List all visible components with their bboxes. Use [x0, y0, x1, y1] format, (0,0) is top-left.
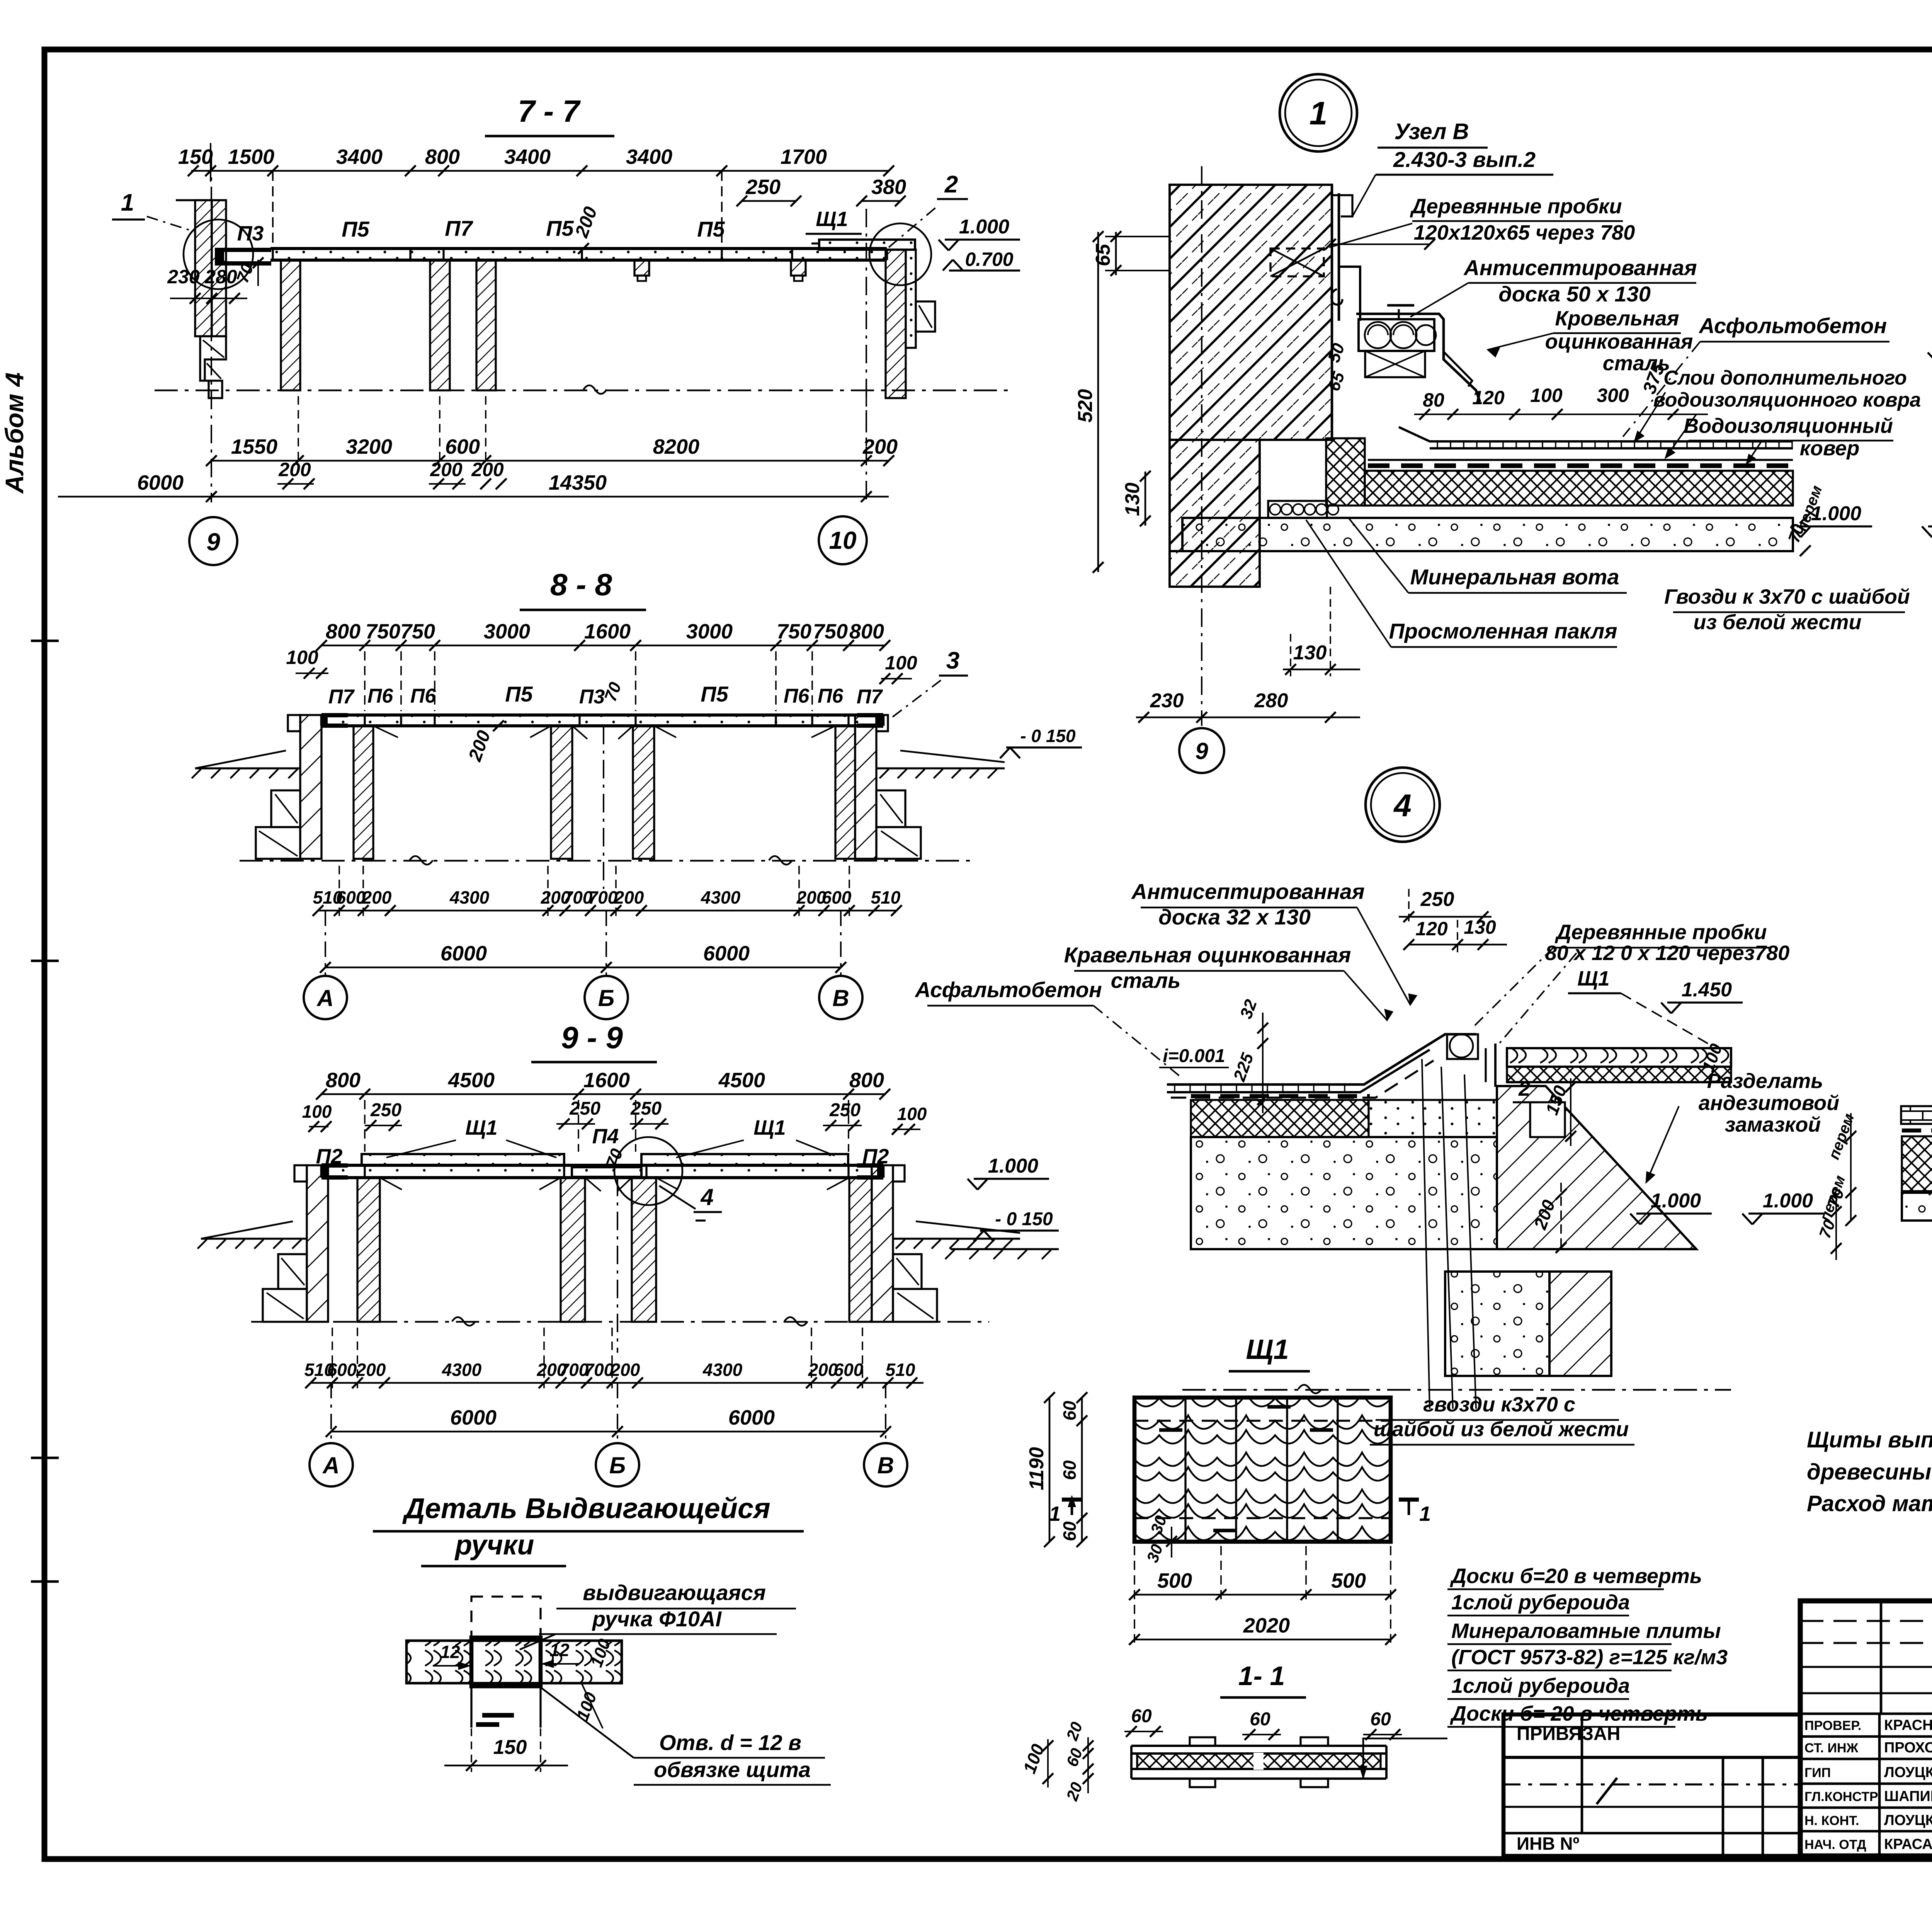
- label gvozdi d1: [1664, 585, 1910, 634]
- svg-text:800: 800: [849, 1069, 884, 1092]
- section 8-8 lower dim line: [313, 887, 902, 916]
- svg-text:Н. КОНТ.: Н. КОНТ.: [1804, 1813, 1859, 1828]
- handle dashed box above: [471, 1597, 541, 1641]
- svg-text:3400: 3400: [504, 145, 551, 169]
- svg-text:ГЛ.КОНСТР: ГЛ.КОНСТР: [1804, 1789, 1878, 1804]
- section 8-8 title: [520, 567, 646, 610]
- detail 1 wooden plug: [1270, 249, 1324, 276]
- svg-text:оцинкованная: оцинкованная: [1545, 330, 1693, 353]
- svg-text:Деталь Выдвигающейся: Деталь Выдвигающейся: [402, 1492, 770, 1524]
- svg-text:1600: 1600: [584, 620, 631, 643]
- section 8-8 wall 2: [551, 726, 572, 859]
- detail 1 concrete slab: [1182, 518, 1793, 551]
- svg-text:Деревянные пробки: Деревянные пробки: [1555, 921, 1767, 944]
- svg-text:0.700: 0.700: [965, 249, 1013, 270]
- svg-text:1.000: 1.000: [959, 216, 1009, 238]
- svg-text:Отв. d = 12 в: Отв. d = 12 в: [659, 1730, 801, 1755]
- axis bubble 10: [819, 516, 867, 564]
- svg-text:Щ1: Щ1: [1577, 967, 1609, 990]
- svg-text:2.430-3 вып.2: 2.430-3 вып.2: [1393, 147, 1536, 172]
- section 7-7 node 2 callout: [889, 171, 968, 247]
- svg-text:2020: 2020: [1243, 1614, 1290, 1637]
- svg-text:280: 280: [204, 266, 237, 288]
- detail 4 dim 200 row: [1530, 1183, 1566, 1253]
- svg-text:4: 4: [1393, 788, 1412, 823]
- detail 4 dims 120 130: [1403, 916, 1507, 955]
- section 8-8 slab 200 dim: [464, 720, 504, 764]
- svg-text:П6: П6: [818, 685, 844, 707]
- detail 4 perem 70: [1815, 1173, 1849, 1260]
- panel Sch1 title: [1229, 1334, 1310, 1371]
- slab end brackets 8-8: [321, 713, 883, 728]
- svg-text:14350: 14350: [549, 471, 607, 494]
- section 7-7 230 280 dims: [167, 266, 247, 304]
- detail 4 bubble: [1366, 768, 1440, 842]
- svg-text:Минераловатные плиты: Минераловатные плиты: [1451, 1619, 1721, 1643]
- detail 4 insulation: [1191, 1100, 1369, 1137]
- svg-text:В: В: [832, 985, 849, 1011]
- detail 4 level 1450: [1661, 979, 1743, 1013]
- section 7-7 title: [485, 94, 614, 136]
- detail 4 panel 100 dim: [1699, 1041, 1726, 1074]
- svg-text:7 - 7: 7 - 7: [518, 94, 581, 128]
- section 7-7 70 dim: [233, 257, 264, 286]
- svg-text:П5: П5: [701, 682, 728, 706]
- section 7-7 sub dims 250 380: [736, 175, 906, 206]
- svg-text:Антисептированная: Антисептированная: [1131, 879, 1364, 904]
- section 7-7 right wall: [886, 250, 906, 398]
- detail 1 wall hatched: [1170, 185, 1332, 587]
- svg-text:100: 100: [302, 1102, 332, 1122]
- svg-text:Доски б=20 в четверть: Доски б=20 в четверть: [1450, 1565, 1702, 1588]
- svg-text:1.000: 1.000: [988, 1155, 1038, 1177]
- axis bubble V 9-9: [864, 1383, 907, 1486]
- label asfaltobeton d4: [914, 977, 1182, 1078]
- svg-text:ПРОВЕР.: ПРОВЕР.: [1804, 1718, 1861, 1733]
- panel Sch1 bottom dim 2020: [1129, 1614, 1396, 1645]
- panel Sch1 section marks: [1049, 1496, 1431, 1525]
- svg-text:П5: П5: [697, 217, 725, 241]
- detail 1 top dim 65: [1092, 231, 1171, 276]
- detail 1 bottom dim 130: [1283, 587, 1360, 676]
- svg-text:древесины хвойных пород.: древесины хвойных пород.: [1807, 1459, 1932, 1485]
- svg-text:200: 200: [862, 435, 898, 458]
- section 8-8 ground left: [192, 751, 300, 778]
- svg-text:200: 200: [471, 459, 504, 480]
- section 9-9 panel P4 piece: [564, 1165, 646, 1177]
- svg-text:65: 65: [1092, 243, 1114, 266]
- svg-text:230: 230: [167, 266, 200, 288]
- handle label text: [520, 1580, 796, 1650]
- svg-text:Водоизоляционный: Водоизоляционный: [1684, 414, 1893, 438]
- svg-text:280: 280: [1254, 690, 1288, 712]
- svg-text:ковер: ковер: [1800, 437, 1860, 460]
- svg-text:1190: 1190: [1026, 1447, 1048, 1490]
- svg-text:Б: Б: [609, 1452, 626, 1478]
- svg-text:230: 230: [1150, 690, 1184, 712]
- handle dim 100 rot b: [573, 1683, 603, 1728]
- svg-text:750: 750: [366, 620, 400, 643]
- svg-text:П5: П5: [505, 682, 533, 706]
- handle pocket below: [471, 1686, 541, 1728]
- handle dim 12 right: [543, 1640, 580, 1667]
- section 9-9 node 4 callout: [659, 1184, 722, 1221]
- section 9-9 wall 1: [357, 1178, 380, 1322]
- plate label P3: [237, 222, 264, 245]
- section 9-9 slab band: [321, 1165, 883, 1178]
- svg-text:сталь: сталь: [1603, 352, 1670, 375]
- detail 4 dim 250: [1399, 888, 1492, 924]
- svg-text:Расход материалов на один щит:: Расход материалов на один щит:: [1807, 1491, 1932, 1516]
- handle detail title line 2: [421, 1530, 566, 1566]
- svg-text:ПРОХОРОВА: ПРОХОРОВА: [1884, 1740, 1932, 1756]
- svg-text:Асфольтобетон: Асфольтобетон: [1698, 313, 1887, 338]
- svg-text:9 - 9: 9 - 9: [561, 1020, 623, 1055]
- section 7-7 wall thickness dims: [277, 459, 507, 489]
- svg-text:4300: 4300: [702, 1360, 743, 1380]
- detail 1 slab left closure: [1170, 518, 1182, 551]
- label asfaltobeton d1: [1623, 313, 1889, 437]
- detail 3 perem 70 dims: [1824, 1111, 1858, 1226]
- svg-text:250: 250: [370, 1100, 401, 1120]
- section 8-8 wall 4: [835, 726, 855, 859]
- detail 4 bottom chain line: [1182, 1385, 1731, 1393]
- svg-text:200: 200: [430, 459, 463, 480]
- panel Sch1 body: [1134, 1398, 1391, 1542]
- axis 10 centre line: [866, 209, 867, 502]
- svg-text:П4: П4: [592, 1125, 619, 1148]
- svg-text:80: 80: [1423, 389, 1444, 411]
- plate label P7: [445, 216, 473, 240]
- svg-text:800: 800: [849, 620, 884, 643]
- svg-text:КРАСАВИН: КРАСАВИН: [1884, 1836, 1932, 1852]
- slab 200 dim rotated: [571, 204, 601, 254]
- materials list text: [1447, 1565, 1728, 1728]
- svg-text:300: 300: [1597, 385, 1629, 406]
- svg-text:П5: П5: [546, 216, 574, 240]
- axis bubble B 9-9: [596, 1383, 639, 1486]
- detail 3 concrete band: [1902, 1191, 1932, 1221]
- svg-text:В: В: [877, 1452, 894, 1478]
- axis bubble 9 detail1: [1179, 728, 1224, 773]
- svg-text:100: 100: [1530, 385, 1563, 406]
- svg-text:Щ1: Щ1: [753, 1116, 786, 1139]
- svg-text:Щ1: Щ1: [1246, 1334, 1289, 1365]
- svg-text:П7: П7: [857, 686, 883, 708]
- handle dim 100 rot a: [587, 1636, 614, 1670]
- svg-text:250: 250: [630, 1098, 662, 1119]
- section 9-9 right pier: [872, 1165, 937, 1322]
- label P4 on 9-9: [592, 1125, 619, 1148]
- svg-text:ЛОУЦКЕР: ЛОУЦКЕР: [1884, 1764, 1932, 1781]
- svg-text:1.000: 1.000: [1763, 1190, 1813, 1212]
- axis bubble A 9-9: [310, 1383, 353, 1486]
- svg-text:12: 12: [549, 1640, 570, 1660]
- svg-text:600: 600: [822, 887, 852, 907]
- detail 4 waterproof band: [1191, 1094, 1370, 1098]
- section 7-7 right strip: [906, 250, 916, 348]
- materials leader to 1-1: [1360, 1738, 1447, 1778]
- svg-text:60: 60: [1250, 1709, 1270, 1730]
- svg-text:4300: 4300: [701, 887, 741, 907]
- svg-text:700: 700: [584, 1360, 614, 1380]
- svg-text:800: 800: [326, 620, 361, 643]
- section 7-7 lower dim extension lines: [298, 396, 866, 466]
- label gvozdi d4: [1370, 1059, 1634, 1445]
- svg-text:500: 500: [1331, 1569, 1366, 1592]
- svg-text:СТ. ИНЖ: СТ. ИНЖ: [1804, 1741, 1859, 1755]
- svg-text:750: 750: [777, 620, 811, 643]
- label P2 left: [316, 1145, 343, 1168]
- notes line 2: [1807, 1459, 1932, 1485]
- detail 4 dim 150 and node2: [1513, 1077, 1576, 1146]
- svg-text:8200: 8200: [653, 435, 699, 458]
- svg-text:П3: П3: [237, 222, 264, 245]
- svg-text:120х120х65 через 780: 120х120х65 через 780: [1414, 221, 1635, 244]
- detail 1 flashing hook: [1332, 289, 1342, 305]
- detail 4 dims 32 225: [1230, 997, 1268, 1113]
- album side caption: [0, 373, 29, 494]
- label mineralnaya vata: [1349, 518, 1627, 593]
- section 7-7 hanger b: [791, 260, 806, 281]
- plate P3 black bracket: [215, 248, 271, 266]
- detail 4 level 1000 left: [968, 1155, 1049, 1190]
- svg-text:П7: П7: [328, 686, 355, 708]
- svg-text:750: 750: [400, 620, 435, 643]
- svg-text:1: 1: [1419, 1502, 1431, 1525]
- svg-text:Кровельная: Кровельная: [1555, 307, 1679, 330]
- svg-text:П6: П6: [784, 685, 810, 707]
- svg-text:1- 1: 1- 1: [1238, 1661, 1285, 1691]
- section 8-8 bottom ground line: [240, 856, 974, 865]
- handle dim 150: [444, 1689, 568, 1772]
- svg-text:1550: 1550: [231, 435, 277, 458]
- section 9-9 bottom ground line: [251, 1317, 989, 1326]
- detail 1 bubble: [1280, 74, 1357, 152]
- section 7-7 right bracket: [916, 301, 935, 332]
- svg-text:800: 800: [425, 145, 460, 169]
- detail 1 dim 520: [1074, 231, 1104, 573]
- svg-text:3000: 3000: [686, 620, 733, 643]
- svg-text:ЛОУЦКЕР: ЛОУЦКЕР: [1884, 1812, 1932, 1828]
- svg-text:60: 60: [1370, 1709, 1391, 1730]
- svg-text:380: 380: [871, 175, 906, 199]
- svg-text:600: 600: [336, 887, 366, 907]
- svg-text:водоизоляционного ковра: водоизоляционного ковра: [1653, 389, 1921, 411]
- notes line 1: [1807, 1427, 1932, 1452]
- svg-text:130: 130: [1464, 916, 1496, 938]
- svg-text:выдвигающаяся: выдвигающаяся: [583, 1580, 766, 1605]
- axis B centre line 9-9: [617, 1178, 618, 1353]
- svg-text:П7: П7: [445, 216, 473, 240]
- svg-text:Деревянные пробки: Деревянные пробки: [1410, 195, 1622, 218]
- svg-text:Гвозди к 3х70 с шайбой: Гвозди к 3х70 с шайбой: [1664, 585, 1910, 608]
- svg-text:сталь: сталь: [1111, 968, 1181, 993]
- section 9-9 ground right: [893, 1221, 1020, 1249]
- detail 1 waterproofing dashes: [1368, 460, 1793, 466]
- section 8-8 lower dim extensions: [339, 866, 849, 916]
- hole note text: [542, 1688, 831, 1785]
- svg-text:1600: 1600: [583, 1069, 630, 1092]
- svg-text:4500: 4500: [718, 1069, 765, 1092]
- detail 4 kerb block: [1369, 1100, 1497, 1137]
- detail 1 roof asphalt layer: [1399, 427, 1793, 448]
- svg-text:НАЧ. ОТД: НАЧ. ОТД: [1804, 1837, 1866, 1852]
- label 70 rotated 9-9: [602, 1146, 627, 1170]
- label krovelnaya d1: [1488, 307, 1693, 375]
- svg-text:4300: 4300: [442, 1360, 482, 1380]
- detail 4 panel: [1486, 1044, 1731, 1087]
- section 8-8 wall 3: [633, 726, 654, 859]
- svg-text:Щ1: Щ1: [816, 208, 848, 231]
- svg-text:120: 120: [1472, 387, 1505, 409]
- svg-text:3400: 3400: [336, 145, 383, 169]
- panel Sch1 30 dims: [1143, 1513, 1177, 1565]
- axis B centre line 8-8: [603, 726, 604, 889]
- section 7-7 hanger a: [634, 260, 649, 281]
- svg-text:120: 120: [1415, 918, 1448, 940]
- svg-text:80 х 12 0 х 120 через780: 80 х 12 0 х 120 через780: [1545, 941, 1790, 965]
- section 7-7 node 1 callout: [112, 189, 195, 232]
- svg-text:А: А: [322, 1452, 339, 1478]
- section 7-7 left wall strips: [176, 200, 226, 336]
- title block outline and extension: [1503, 1601, 1932, 1856]
- svg-text:130: 130: [1293, 642, 1327, 664]
- detail 1 dims 80 120 100 300 375: [1414, 360, 1708, 420]
- svg-text:150: 150: [493, 1736, 527, 1759]
- detail 1 dim 130v: [1121, 471, 1151, 526]
- detail 4 concrete body: [1191, 1137, 1497, 1249]
- detail 1 level 1000: [1791, 502, 1872, 537]
- svg-text:Кравельная оцинкованная: Кравельная оцинкованная: [1064, 943, 1351, 967]
- section 7-7 slab band: [270, 249, 887, 260]
- svg-text:Слои дополнительного: Слои дополнительного: [1663, 367, 1907, 389]
- section 7-7 wall C: [476, 260, 496, 390]
- section 7-7 lower dim line: [206, 435, 898, 466]
- svg-text:1700: 1700: [781, 145, 827, 169]
- svg-text:(ГОСТ 9573-82) г=125 кг/м3: (ГОСТ 9573-82) г=125 кг/м3: [1451, 1646, 1728, 1669]
- section 7-7 left wall detail circle: [184, 220, 253, 289]
- label P5 on 8-8 left: [505, 682, 533, 706]
- detail 1 mineral wool block: [1326, 438, 1365, 506]
- section 9-9 wall 4: [849, 1178, 872, 1322]
- detail 4 level marks bottom: [1630, 1190, 1824, 1224]
- panel Sch1 60 dims: [1060, 1392, 1087, 1547]
- svg-text:Антисептированная: Антисептированная: [1463, 255, 1697, 280]
- plate label P5 a: [342, 217, 369, 241]
- section 9-9 ground left: [197, 1221, 307, 1249]
- panel Sch1 bottom dim 500s: [1129, 1546, 1396, 1643]
- slab end brackets 9-9: [321, 1163, 883, 1180]
- labels P6 P6 P7 on 8-8 right: [784, 685, 883, 708]
- section 9-9 lower dim line: [304, 1360, 923, 1388]
- notes line 3: [1807, 1491, 1932, 1516]
- label P5 on 8-8 right: [701, 682, 728, 706]
- svg-text:6000: 6000: [450, 1406, 497, 1429]
- detail 4 i=0001: [1159, 1046, 1229, 1067]
- handle channel box: [471, 1638, 541, 1686]
- svg-text:ШАПИРО: ШАПИРО: [1884, 1788, 1932, 1805]
- detail 1 70 perem: [1784, 483, 1825, 556]
- svg-text:4500: 4500: [448, 1069, 495, 1092]
- stamp upper grid: [1800, 1601, 1932, 1856]
- section 8-8 node 3 callout: [893, 647, 968, 717]
- section 9-9 panel right: [641, 1154, 848, 1165]
- detail 1 flashing over board: [1356, 314, 1480, 402]
- axis 9 centre line: [211, 153, 212, 502]
- section 8-8 top dimension line: [316, 620, 890, 711]
- svg-text:3000: 3000: [484, 620, 530, 643]
- svg-text:6000: 6000: [703, 942, 750, 965]
- label derevyannye probki d1: [1329, 195, 1635, 247]
- section 8-8 left pier: [256, 715, 321, 859]
- fold mark 3: [31, 1457, 59, 1459]
- svg-text:8 - 8: 8 - 8: [550, 567, 612, 602]
- fold mark 4: [31, 1580, 59, 1583]
- section 9-9 axes dim line: [326, 1406, 891, 1437]
- svg-text:П6: П6: [410, 685, 436, 707]
- svg-text:обвязке щита: обвязке щита: [654, 1757, 811, 1782]
- svg-text:60: 60: [1131, 1706, 1152, 1726]
- svg-text:250: 250: [1420, 888, 1454, 911]
- svg-text:6000: 6000: [440, 942, 487, 965]
- svg-text:ручка Ф10АI: ручка Ф10АI: [592, 1607, 722, 1631]
- section 8-8 100 dim left: [286, 647, 328, 679]
- svg-text:700: 700: [588, 887, 618, 907]
- svg-text:9: 9: [1195, 738, 1208, 764]
- svg-text:ПРИВЯЗАН: ПРИВЯЗАН: [1517, 1724, 1620, 1744]
- svg-text:1слой рубероида: 1слой рубероида: [1451, 1674, 1630, 1697]
- svg-text:Минеральная вота: Минеральная вота: [1410, 565, 1619, 589]
- fold mark 2: [31, 960, 59, 962]
- label Sch1 right on 9-9: [676, 1116, 835, 1158]
- label Sch1 d4: [1568, 967, 1708, 1044]
- svg-text:10: 10: [829, 526, 856, 554]
- axis bubble V 8-8: [819, 911, 862, 1019]
- plate label P5 b: [546, 216, 574, 240]
- svg-text:- 0 150: - 0 150: [1020, 726, 1076, 746]
- extension slash mark: [1597, 1778, 1617, 1804]
- svg-text:200: 200: [356, 1360, 386, 1380]
- label P3 and 70 on 8-8: [579, 679, 625, 708]
- section 9-9 lower dim extensions: [332, 1328, 862, 1388]
- section 8-8 slab band: [321, 715, 883, 726]
- handle bar wood body: [406, 1641, 622, 1683]
- stamp row labels: [1804, 1717, 1932, 1852]
- svg-text:100: 100: [286, 647, 318, 668]
- detail 1 board with circles: [1359, 305, 1436, 351]
- label prosmolennaya paklya: [1306, 520, 1617, 647]
- panel Sch1 left dim 1190: [1026, 1392, 1055, 1547]
- svg-text:100: 100: [885, 652, 917, 674]
- svg-text:800: 800: [326, 1069, 361, 1092]
- svg-text:60: 60: [1060, 1401, 1080, 1421]
- svg-text:КРАСНОВА: КРАСНОВА: [1884, 1717, 1932, 1733]
- svg-text:1500: 1500: [228, 145, 274, 169]
- detail 1 board cross box: [1365, 351, 1425, 377]
- handle detail title line 1: [373, 1492, 804, 1531]
- svg-text:510: 510: [871, 887, 901, 907]
- svg-text:ГИП: ГИП: [1804, 1765, 1831, 1780]
- section 9-9 wall 3: [632, 1178, 656, 1322]
- plate label P5 c: [697, 217, 725, 241]
- section 7-7 left wall footing: [200, 336, 226, 398]
- svg-text:9: 9: [206, 528, 220, 556]
- label Sch1 left on 9-9: [386, 1116, 556, 1158]
- svg-text:1.000: 1.000: [1651, 1190, 1701, 1212]
- detail 3 insulation: [1902, 1136, 1932, 1191]
- axis bubble 9: [189, 517, 237, 565]
